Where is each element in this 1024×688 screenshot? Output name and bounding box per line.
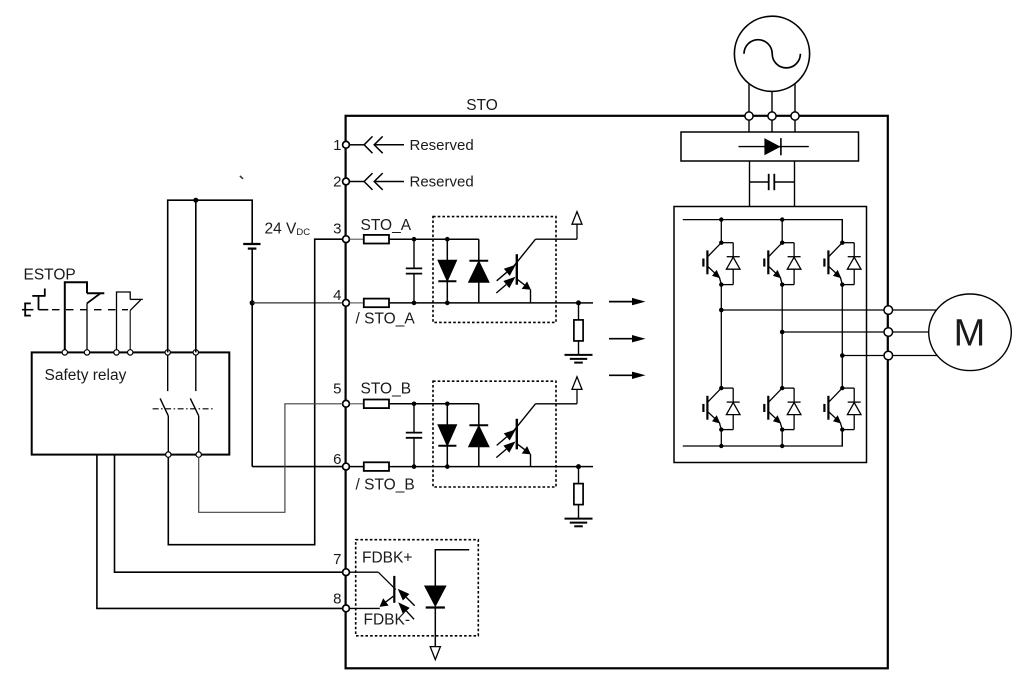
resistor RB1 (B top): [350, 400, 389, 409]
wire L2 to rectifier: [771, 120, 773, 132]
wire AC phase L2: [771, 91, 773, 112]
wire V to motor: [893, 331, 929, 333]
terminal pin 5: [343, 400, 350, 407]
diode D2 (freewheel): [782, 243, 801, 285]
ground B: [565, 519, 593, 527]
LED DB1 (pointing down): [438, 402, 457, 469]
diode D3 (freewheel): [842, 243, 861, 285]
wire DC- bus (bottom rail): [683, 430, 843, 446]
svg-text:M: M: [954, 313, 986, 355]
svg-text:Safety relay: Safety relay: [45, 367, 127, 384]
wire pin 1 stub: [349, 144, 364, 146]
node battery minus junction: [250, 300, 255, 305]
node Q1 collector dot: [719, 241, 723, 245]
transistor Q4 (IGBT): [703, 388, 721, 430]
relay top terminal: [165, 350, 170, 355]
wire relay to pin8: [97, 455, 343, 609]
diode D6 (freewheel): [842, 388, 861, 430]
terminal pin 2: [343, 178, 350, 185]
resistor RA2 (A bottom): [350, 299, 389, 308]
node Q2 emitter dot: [780, 282, 784, 286]
signal arrow right: [609, 372, 646, 379]
transistor Q1 (IGBT): [703, 243, 721, 285]
relay top terminal: [128, 350, 133, 355]
node Q6 collector dot: [840, 386, 844, 390]
wire AC phase L3: [794, 84, 796, 113]
wire leg 2 lower: [781, 430, 783, 446]
relay top terminal: [193, 350, 198, 355]
node Q4 collector dot: [719, 386, 723, 390]
svg-text:4: 4: [333, 287, 341, 304]
wire contact2 to pin5: [199, 404, 343, 513]
terminal pin 8: [343, 605, 350, 612]
wire emitter B stub: [579, 466, 594, 468]
svg-text:6: 6: [333, 451, 341, 468]
wire collector B to supply arrow: [536, 403, 578, 405]
LED DA2 (pointing up): [469, 239, 489, 303]
node Q5 emitter dot: [780, 427, 784, 431]
svg-text:3: 3: [333, 221, 341, 238]
wire battery minus down: [251, 303, 253, 467]
svg-text:/ STO_A: / STO_A: [356, 310, 416, 327]
node output phase 1: [719, 308, 724, 313]
wire leg 1 mid (collector of lower IGBT): [720, 285, 722, 389]
stray mark: [240, 176, 243, 179]
svg-text:8: 8: [333, 590, 341, 607]
wire DC- link: [794, 161, 796, 207]
relay top terminal: [62, 350, 67, 355]
node Q6 emitter dot: [840, 427, 844, 431]
wire emitter A stub: [579, 302, 594, 304]
wire leg 1 lower: [720, 430, 722, 446]
svg-text:2: 2: [333, 174, 341, 191]
transistor Q6 (IGBT): [824, 388, 842, 430]
wire /B bottom net: [389, 466, 579, 468]
signal arrow right: [609, 335, 646, 342]
svg-text:STO_B: STO_B: [361, 380, 412, 397]
transistor Q3 (IGBT): [824, 243, 842, 285]
AC source G1: [734, 16, 809, 91]
svg-text:STO: STO: [466, 97, 498, 114]
node emitter A junction: [576, 300, 581, 305]
resistor RA3 (pull-down): [574, 303, 583, 355]
svg-text:5: 5: [333, 381, 341, 398]
svg-text:FDBK+: FDBK+: [362, 550, 412, 567]
wire AC phase L1: [748, 84, 750, 113]
reserved chevrons pin 2: [364, 173, 404, 190]
wire to pin6: [252, 466, 342, 468]
STO drive enclosure box: [346, 116, 888, 669]
node Q3 collector dot: [840, 241, 844, 245]
terminal pin 4: [343, 300, 350, 307]
relay linkage dash-dot line: [153, 408, 215, 410]
wire leg 1 upper: [720, 220, 722, 243]
svg-text:/ STO_B: / STO_B: [356, 476, 415, 493]
wire U to motor: [893, 309, 937, 311]
capacitor DC-link C1: [750, 174, 795, 190]
optocoupler U_A dashed outline: [433, 217, 556, 323]
node emitter B junction: [576, 464, 581, 469]
node Q3 emitter dot: [840, 282, 844, 286]
node Q2 collector dot: [780, 241, 784, 245]
svg-text:1: 1: [333, 137, 341, 154]
node Q5 collector dot: [780, 386, 784, 390]
node output phase 3: [840, 353, 845, 358]
node Q4 emitter dot: [719, 427, 723, 431]
node bottom rail leg1: [719, 444, 723, 448]
terminal L2: [768, 112, 776, 120]
node Q1 emitter dot: [719, 282, 723, 286]
svg-text:Reserved: Reserved: [410, 174, 474, 191]
relay top terminal: [84, 350, 89, 355]
wire phase W output: [842, 355, 884, 357]
transistor Q2 (IGBT): [764, 243, 782, 285]
wire W to motor: [893, 355, 937, 357]
terminal U: [884, 306, 893, 315]
wire leg 3 mid (collector of lower IGBT): [841, 285, 843, 389]
wire relay to pin7: [115, 455, 343, 573]
wire A top net: [389, 238, 479, 240]
wire DC+ bus (top rail): [683, 220, 843, 243]
signal arrow right: [609, 298, 646, 305]
wire /A bottom net: [389, 302, 579, 304]
wire collector A to supply arrow: [536, 238, 578, 240]
phototransistor Q_B: [510, 404, 536, 467]
LED DA1 (pointing down): [438, 237, 457, 305]
diode D_FDBK: [425, 586, 446, 646]
wire FDBK internal rail: [435, 550, 469, 586]
wire contact1 to pin3: [168, 239, 342, 545]
capacitor C_B: [406, 402, 422, 469]
relay top terminal: [114, 350, 119, 355]
wire battery minus to pin4: [252, 302, 342, 304]
wire L1 to rectifier: [748, 120, 750, 132]
resistor RA1 (A top): [350, 235, 389, 244]
relay contact 1: [160, 355, 168, 452]
wire leg 2 mid (collector of lower IGBT): [781, 285, 783, 389]
ground A: [565, 355, 593, 363]
supply arrow (up) A: [572, 212, 582, 240]
wire L3 to rectifier: [794, 120, 796, 132]
svg-text:Reserved: Reserved: [410, 137, 474, 154]
node output phase 2: [780, 330, 785, 335]
phototransistor Q_FDBK: [378, 572, 396, 607]
opto light arrows A: [497, 265, 516, 281]
wire pin8 stub: [349, 607, 379, 609]
wire leg 3 upper: [841, 220, 843, 243]
svg-text:7: 7: [333, 551, 341, 568]
wire pin7 stub: [349, 571, 378, 573]
transistor Q5 (IGBT): [764, 388, 782, 430]
opto light arrows B: [497, 429, 516, 445]
relay bottom terminal: [196, 452, 201, 457]
motor M1: [929, 294, 1012, 371]
wire phase V output: [782, 331, 884, 333]
wire B top net: [389, 403, 479, 405]
ESTOP linkage dashed line: [52, 309, 128, 311]
terminal pin 6: [343, 463, 350, 470]
diode D1 (freewheel): [721, 243, 740, 285]
safety relay box K1: [32, 352, 230, 454]
svg-text:STO_A: STO_A: [361, 217, 412, 234]
diode D4 (freewheel): [721, 388, 740, 430]
terminal pin 1: [343, 141, 350, 148]
opto light arrows FDBK: [398, 589, 415, 606]
svg-text:ESTOP: ESTOP: [24, 266, 76, 283]
diode D5 (freewheel): [782, 388, 801, 430]
resistor RB2 (B bottom): [350, 462, 389, 471]
capacitor C_A: [406, 237, 422, 305]
wire leg 3 lower: [841, 430, 843, 446]
node top rail leg2: [780, 217, 784, 221]
reserved chevrons pin 1: [364, 136, 404, 153]
terminal pin 3: [343, 236, 350, 243]
LED DB2 (pointing up): [469, 404, 489, 467]
wire leg 2 upper: [781, 220, 783, 243]
wire phase U output: [721, 309, 884, 311]
optocoupler U_B dashed outline: [433, 381, 556, 487]
terminal W: [884, 351, 893, 360]
supply arrow (up) B: [572, 377, 582, 404]
relay bottom terminal: [166, 452, 171, 457]
node 24V rail junction: [193, 198, 198, 203]
wire contact2 top feed: [195, 200, 197, 352]
battery 24 VDC: [243, 244, 260, 303]
wire pin 2 stub: [349, 181, 364, 183]
rectifier block: [681, 132, 859, 161]
inverter block outline: [674, 207, 867, 463]
output arrow (down) FDBK: [430, 647, 440, 660]
wire DC+ link: [749, 161, 751, 207]
terminal pin 7: [343, 569, 350, 576]
resistor RB3 (pull-down): [574, 467, 583, 519]
rectifier diode symbol: [739, 138, 809, 155]
ESTOP actuator symbol: [22, 289, 48, 317]
ESTOP contact 1 (NC): [65, 282, 105, 352]
terminal L3: [791, 112, 799, 120]
node top rail leg1: [719, 217, 723, 221]
ESTOP contact 2 (NC): [117, 292, 143, 352]
wire 24V rail: [168, 200, 253, 352]
phototransistor Q_A: [510, 239, 536, 303]
terminal V: [884, 328, 893, 337]
FDBK dashed outline: [356, 540, 479, 636]
node bottom rail leg2: [780, 444, 784, 448]
relay contact 2: [190, 355, 198, 452]
terminal L1: [745, 112, 753, 120]
